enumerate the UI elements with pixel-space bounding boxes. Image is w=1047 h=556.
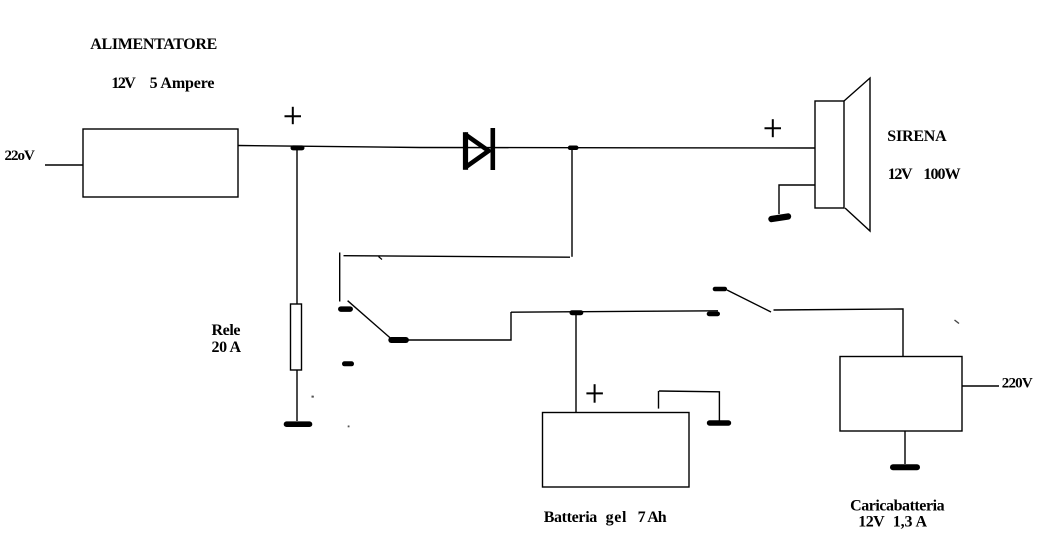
siren horn [844, 78, 870, 231]
ground siren [772, 217, 789, 220]
plus sign at relay node [285, 107, 302, 124]
svg-text:22oV: 22oV [5, 148, 35, 164]
battery B1 box [543, 413, 690, 488]
junction node A (relay tap) [293, 145, 302, 150]
svg-text:Caricabatteria: Caricabatteria [850, 498, 945, 515]
wire charger ground lead [904, 431, 906, 464]
wire relay drop [296, 150, 298, 304]
plus sign battery [586, 384, 603, 403]
value label 12V 100W [888, 166, 961, 183]
wire siren return [779, 185, 815, 214]
switch SW1 blade [348, 301, 391, 338]
switch SW1 spare contact [345, 361, 352, 366]
switch SW2 left contact [709, 312, 718, 317]
svg-text:Ah: Ah [647, 509, 666, 526]
wire battery bus [511, 311, 718, 312]
svg-text:20 A: 20 A [212, 339, 242, 356]
svg-text:1,3 A: 1,3 A [893, 513, 928, 530]
ground relay [287, 421, 310, 427]
wire SW2 to charger [774, 309, 904, 356]
junction node B (battery tap) [570, 146, 576, 151]
stray mark [312, 396, 314, 398]
ground charger [893, 464, 917, 470]
stray mark [955, 320, 960, 324]
svg-text:5 Ampere: 5 Ampere [150, 75, 215, 92]
ground battery [710, 420, 729, 425]
label Batteria gel 7 Ah [544, 509, 667, 526]
svg-text:Batteria: Batteria [544, 509, 598, 526]
diode D1 [466, 128, 493, 170]
svg-text:12V: 12V [111, 75, 136, 92]
relay coil K1 (Rele 20 A) [291, 304, 302, 370]
wire charger mains lead [962, 385, 999, 387]
stray mark [379, 257, 383, 260]
wire relay to ground [296, 370, 298, 421]
svg-text:SIRENA: SIRENA [887, 128, 947, 145]
svg-text:12V: 12V [888, 166, 913, 183]
svg-text:7: 7 [638, 509, 646, 526]
stray mark [348, 425, 350, 427]
svg-text:100W: 100W [923, 166, 960, 183]
wire SW1 to battery bus [406, 312, 511, 340]
switch SW1 lower contact [391, 337, 406, 343]
svg-text:220V: 220V [1002, 375, 1033, 391]
wire battery negative lead [658, 391, 660, 409]
svg-text:ALIMENTATORE: ALIMENTATORE [90, 36, 217, 53]
svg-text:gel: gel [606, 509, 627, 526]
wire main 12V bus [238, 146, 815, 149]
switch SW2 blade [727, 290, 771, 312]
wire battery positive lead [575, 315, 577, 412]
switch SW2 upper contact [715, 287, 725, 292]
value label 12V 1,3 A [858, 513, 927, 530]
svg-text:12V: 12V [858, 513, 885, 530]
power supply U1 box (ALIMENTATORE) [83, 129, 238, 197]
switch SW1 upper contact [341, 306, 350, 312]
siren speaker body [815, 101, 844, 208]
label Rele 20 A [212, 322, 242, 356]
wire cross link to SW1 [344, 256, 571, 258]
svg-text:Rele: Rele [212, 322, 241, 339]
plus sign siren [765, 119, 782, 137]
battery charger box (Caricabatteria) [840, 357, 962, 432]
value label 12V 5 Ampere [111, 75, 214, 92]
junction battery positive node [572, 310, 581, 315]
wire 220V input lead [45, 164, 83, 166]
wire battery tap drop [571, 150, 573, 257]
